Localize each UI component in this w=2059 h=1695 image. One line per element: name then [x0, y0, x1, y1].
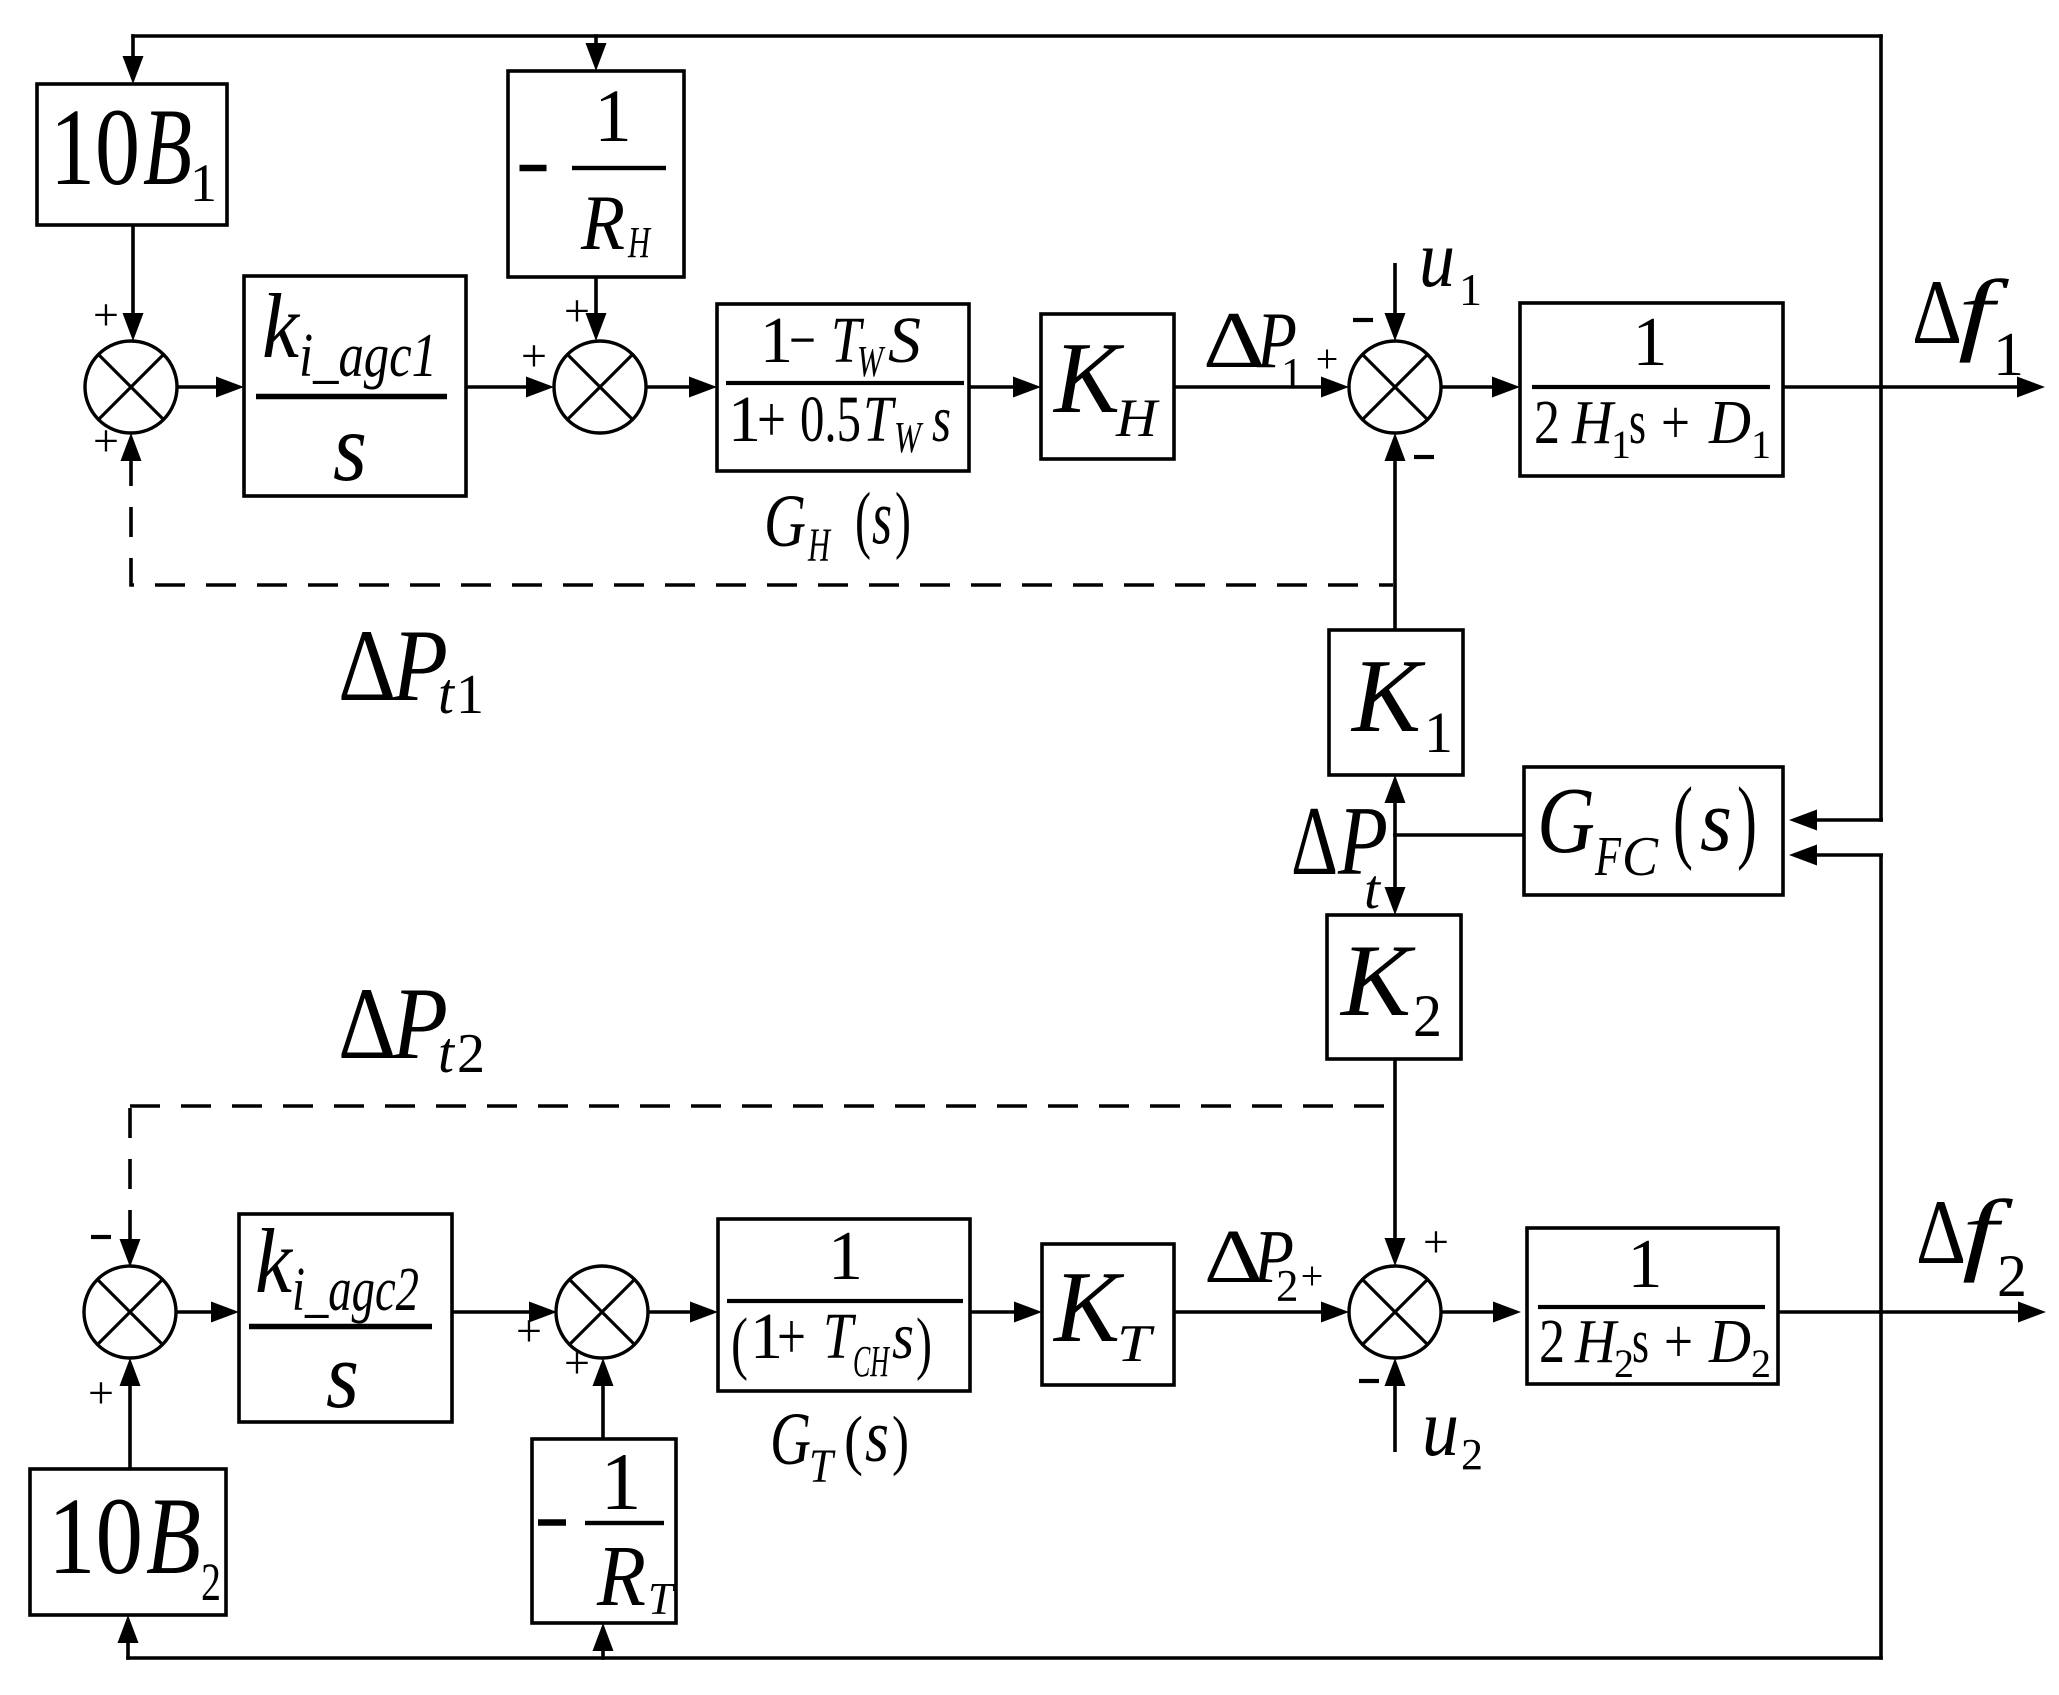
label GH(s) [764, 473, 911, 572]
wire GH to block KH [969, 385, 1019, 389]
svg-text:+: + [93, 415, 119, 466]
svg-text:H: H [1574, 1308, 1619, 1376]
wire right vertical Df2 feedback [1879, 855, 1883, 1660]
wire Df2 output [1778, 1310, 2024, 1314]
svg-text:+: + [93, 289, 119, 340]
wire bottom up into -1/RT [601, 1646, 605, 1660]
svg-text:i_agc2: i_agc2 [292, 1256, 419, 1324]
svg-text:CH: CH [853, 1337, 890, 1386]
sign minus S3 u1 [1353, 318, 1373, 322]
svg-text:s: s [333, 394, 367, 502]
svg-text:s: s [872, 473, 892, 560]
wire S6 to block 1/(2H2s+D2) [1441, 1310, 1499, 1314]
svg-text:(: ( [1673, 769, 1693, 872]
label Df1 [1912, 261, 2024, 389]
svg-text:k: k [262, 275, 301, 377]
svg-text:G: G [1537, 769, 1595, 873]
svg-text:s: s [326, 1324, 359, 1428]
wire node DPt up into K1 [1393, 798, 1397, 837]
svg-text:2: 2 [1534, 389, 1560, 457]
svg-text:C: C [1622, 826, 1659, 888]
label DPt1 [338, 609, 484, 726]
svg-text:R: R [580, 179, 625, 266]
label DP2 [1204, 1215, 1299, 1311]
svg-text:): ) [1737, 769, 1757, 872]
svg-text:+: + [88, 1367, 114, 1418]
svg-text:2: 2 [1461, 1430, 1483, 1479]
sign minus S6 bottom [1359, 1379, 1379, 1383]
block 1/(2H2s+D2) [1527, 1228, 1778, 1384]
svg-text:k: k [255, 1210, 294, 1312]
svg-text:+: + [777, 1300, 806, 1373]
svg-text:1: 1 [1993, 321, 2024, 389]
svg-text:B: B [146, 1475, 201, 1597]
svg-text:u: u [1419, 213, 1455, 304]
svg-text:T: T [1117, 1315, 1155, 1373]
svg-text:10: 10 [48, 1475, 143, 1597]
block -1/RT [532, 1439, 676, 1623]
svg-text:T: T [648, 1573, 676, 1624]
svg-text:1: 1 [1628, 1226, 1663, 1303]
svg-text:B: B [143, 86, 192, 208]
wire u2 input into S6 [1393, 1381, 1397, 1452]
svg-text:2: 2 [457, 1023, 485, 1085]
svg-text:10: 10 [50, 86, 140, 208]
label u2 [1422, 1382, 1483, 1479]
svg-text:1: 1 [1281, 349, 1303, 398]
svg-text:Δ: Δ [1291, 787, 1338, 896]
svg-text:+: + [1423, 1216, 1449, 1267]
svg-text:1: 1 [190, 153, 217, 213]
svg-text:K: K [1350, 637, 1426, 754]
block -1/RH [508, 71, 684, 277]
svg-text:+: + [1661, 389, 1690, 457]
svg-text:t: t [1364, 859, 1381, 921]
svg-text:1: 1 [1459, 264, 1482, 315]
svg-text:T: T [863, 383, 896, 456]
block GH transfer function [717, 304, 969, 471]
svg-text:G: G [770, 1398, 811, 1481]
svg-text:T: T [823, 1300, 856, 1373]
svg-text:+: + [757, 383, 786, 456]
block 10B1 [37, 84, 227, 225]
svg-text:(: ( [731, 1305, 748, 1382]
block K1 [1329, 630, 1463, 775]
label DPt2 [338, 967, 485, 1085]
svg-text:1: 1 [601, 1436, 642, 1527]
svg-text:K: K [1052, 1251, 1125, 1364]
block 1/(2H1s+D1) [1520, 303, 1783, 476]
svg-text:G: G [764, 480, 806, 563]
wire dashed DPt1 tap [131, 456, 1393, 585]
label DPt [1291, 787, 1388, 921]
svg-text:i_agc1: i_agc1 [299, 322, 437, 390]
wire drop into 10B1 top [131, 34, 135, 60]
wire Df1 output [1783, 385, 2023, 389]
svg-text:2: 2 [1413, 983, 1442, 1049]
wire Df2 feedback into GFC lower input [1812, 853, 1883, 857]
svg-text:t: t [438, 661, 456, 726]
wire bottom feedback [126, 1656, 1883, 1660]
wire ki_agc1/s to summer S2 [466, 385, 532, 389]
wire KH to summer S3 (DP1) [1174, 385, 1327, 389]
svg-text:P: P [1337, 787, 1388, 896]
svg-text:+: + [1301, 1253, 1324, 1298]
svg-text:T: T [809, 1440, 836, 1493]
wire -1/RT up to summer S5 [601, 1381, 605, 1439]
svg-text:Δ: Δ [338, 967, 396, 1081]
svg-text:2: 2 [1614, 1341, 1634, 1386]
block GFC [1524, 767, 1783, 895]
wire S1 to block ki_agc1/s [177, 385, 222, 389]
svg-text:2: 2 [1751, 1341, 1771, 1386]
svg-text:t: t [438, 1020, 456, 1085]
block KT [1042, 1244, 1174, 1385]
svg-text:K: K [1052, 322, 1125, 435]
svg-text:s: s [865, 1396, 889, 1478]
svg-text:1: 1 [594, 75, 632, 158]
wire bottom up into 10B2 [126, 1638, 130, 1660]
block ki_agc2/s [239, 1214, 452, 1422]
svg-text:2: 2 [1539, 1308, 1565, 1376]
block GT transfer function [718, 1219, 970, 1391]
summing junction S5 [556, 1266, 648, 1358]
summing junction S4 [84, 1266, 176, 1358]
wire K2 down to summer S6 [1393, 1059, 1397, 1243]
svg-text:Δ: Δ [1916, 1181, 1966, 1283]
wire S4 to block ki_agc2/s [176, 1310, 217, 1314]
svg-text:D: D [1708, 389, 1751, 457]
label GT(s) [770, 1396, 909, 1493]
svg-text:W: W [857, 337, 885, 386]
svg-text:s: s [1632, 1308, 1649, 1376]
svg-text:): ) [895, 478, 911, 561]
svg-text:1: 1 [456, 664, 484, 726]
svg-text:): ) [892, 1403, 909, 1477]
svg-text:W: W [894, 413, 923, 462]
wire GFC output to node DPt [1393, 833, 1524, 837]
sign minus S4 top [91, 1235, 111, 1239]
svg-text:Δ: Δ [338, 609, 396, 723]
wire drop into -1/RH top [594, 34, 598, 48]
wire GT to block KT [970, 1310, 1020, 1314]
summing junction S2 [554, 341, 646, 433]
svg-text:s: s [892, 1300, 914, 1373]
svg-text:H: H [1571, 389, 1616, 457]
block K2 [1327, 915, 1461, 1059]
svg-text:+: + [564, 285, 590, 336]
wire K1 up into S3 [1393, 456, 1397, 630]
wire dashed DPt2 tap [130, 1104, 1393, 1108]
svg-text:2: 2 [201, 1552, 221, 1612]
svg-text:H: H [627, 218, 651, 267]
svg-text:u: u [1422, 1382, 1459, 1473]
block KH [1041, 314, 1174, 459]
wire KT to summer S6 (DP2) [1174, 1310, 1327, 1314]
svg-text:+: + [1316, 336, 1339, 381]
summing junction S3 [1349, 341, 1441, 433]
svg-text:(: ( [855, 478, 871, 561]
wire 10B2 up to summer S4 [128, 1381, 132, 1469]
svg-text:+: + [1664, 1308, 1693, 1376]
wire top feedback from Df1 tap to left [131, 34, 1883, 38]
svg-text:+: + [516, 1305, 542, 1356]
wire S5 to block GT [648, 1310, 696, 1314]
svg-text:s: s [1629, 389, 1646, 457]
svg-text:1: 1 [1633, 304, 1668, 381]
svg-text:1: 1 [1424, 700, 1453, 765]
label u1 [1419, 213, 1482, 315]
wire node DPt down into K2 [1393, 833, 1397, 892]
wire S2 to block GH [646, 385, 695, 389]
wire Df1 feedback into GFC upper input [1812, 818, 1883, 822]
svg-text:s: s [1700, 773, 1732, 870]
block 10B2 [30, 1469, 226, 1615]
svg-text:(: ( [844, 1403, 863, 1477]
svg-text:K: K [1339, 924, 1416, 1038]
svg-text:F: F [1594, 826, 1621, 888]
svg-text:): ) [916, 1305, 932, 1382]
svg-text:0.5: 0.5 [800, 383, 861, 456]
svg-text:1: 1 [1611, 422, 1631, 467]
svg-text:1: 1 [1751, 422, 1771, 467]
wire -1/RH to summer S2 [594, 277, 598, 318]
svg-text:S: S [888, 304, 921, 377]
svg-text:Δ: Δ [1203, 297, 1265, 385]
svg-text:+: + [564, 1337, 590, 1388]
wire S3 to block 1/(2H1s+D1) [1441, 385, 1498, 389]
svg-text:2: 2 [1276, 1261, 1299, 1311]
wire 10B1 to summer S1 [131, 225, 135, 318]
summing junction S1 [85, 341, 177, 433]
svg-text:D: D [1708, 1308, 1751, 1376]
label DP1 [1203, 297, 1303, 398]
svg-text:+: + [521, 330, 547, 381]
sign minus S3 bottom [1414, 455, 1434, 459]
svg-text:H: H [807, 519, 831, 572]
svg-text:s: s [932, 383, 951, 456]
svg-text:R: R [596, 1527, 646, 1624]
summing junction S6 [1349, 1266, 1441, 1358]
wire right vertical Df1 feedback [1879, 34, 1883, 822]
wire u1 input into S3 [1393, 263, 1397, 318]
svg-text:Δ: Δ [1912, 261, 1962, 363]
svg-text:−: − [789, 304, 816, 377]
svg-text:1: 1 [828, 1218, 863, 1295]
svg-text:2: 2 [1997, 1243, 2027, 1309]
wire ki_agc2/s to summer S5 [452, 1310, 535, 1314]
label Df2 [1916, 1181, 2027, 1309]
svg-text:H: H [1115, 388, 1160, 448]
block ki_agc1/s [244, 276, 466, 496]
